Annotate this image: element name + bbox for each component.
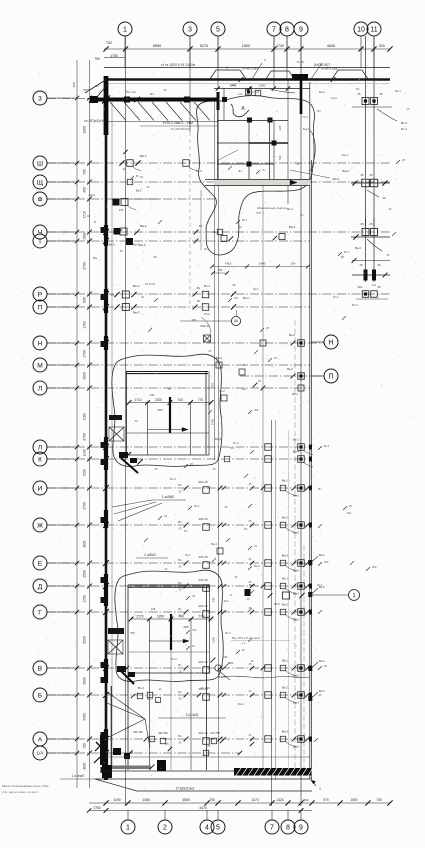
svg-text:Вк-2: Вк-2 <box>401 127 407 131</box>
axis circle 3 (left) <box>33 91 47 105</box>
cluster row 163 mid <box>183 160 190 167</box>
svg-text:2700: 2700 <box>83 262 87 270</box>
svg-text:П: П <box>328 374 333 381</box>
top edge thin line <box>104 67 390 69</box>
svg-text:Вч-2: Вч-2 <box>170 477 176 481</box>
axis 3 leader <box>47 97 77 99</box>
svg-text:25: 25 <box>179 588 182 592</box>
core1 h120 <box>217 120 288 122</box>
svg-text:И: И <box>38 485 43 492</box>
axis circle 1/А (left) <box>33 746 47 760</box>
svg-text:25: 25 <box>249 482 252 486</box>
svg-text:Вч-2: Вч-2 <box>194 504 200 508</box>
sq row 551 <box>217 548 223 554</box>
core2 brace diag 2 <box>109 427 124 441</box>
svg-text:Зч: Зч <box>238 169 242 173</box>
core2 left wall <box>126 371 128 455</box>
core3 left brace box <box>108 640 123 654</box>
axis circle В (left) <box>33 661 47 675</box>
svg-text:25: 25 <box>357 92 361 96</box>
svg-text:4: 4 <box>205 825 209 832</box>
svg-text:744: 744 <box>218 268 223 272</box>
svg-text:2700: 2700 <box>83 433 87 441</box>
leader to circle Н <box>311 341 324 343</box>
svg-text:Вм-2: Вм-2 <box>293 569 300 573</box>
svg-text:Л: Л <box>38 444 42 451</box>
svg-text:Т2: Т2 <box>134 419 138 423</box>
core1 top line <box>214 88 310 90</box>
svg-text:34: 34 <box>213 467 216 471</box>
band arrowhead <box>290 180 297 185</box>
core3 bottom dark cluster <box>117 666 126 672</box>
svg-text:800: 800 <box>83 297 87 303</box>
core3 thick diagonal <box>120 670 134 684</box>
svg-text:СМ 750: СМ 750 <box>210 731 220 735</box>
svg-text:2 шЗМ2: 2 шЗМ2 <box>144 553 156 557</box>
upper beam bar <box>104 78 390 81</box>
axis circle 9 (top) <box>294 22 308 36</box>
svg-text:Вк-1: Вк-1 <box>282 659 288 663</box>
svg-text:Вм-2: Вм-2 <box>293 745 300 749</box>
svg-text:Вч: Вч <box>319 487 323 491</box>
wall side marks <box>101 227 106 233</box>
axis П leader <box>47 306 77 308</box>
svg-text:3: 3 <box>38 95 42 102</box>
inner wall line x214 <box>214 99 216 460</box>
axis 11 stem <box>373 36 375 68</box>
axis Ж leader <box>47 524 77 526</box>
svg-text:25: 25 <box>96 84 99 88</box>
svg-text:1А+ВТЗ.2Ба: 1А+ВТЗ.2Ба <box>321 67 338 71</box>
svg-text:25: 25 <box>179 741 182 745</box>
skirt diagonal <box>95 779 137 791</box>
svg-text:3900: 3900 <box>83 677 87 685</box>
svg-text:25: 25 <box>249 519 252 523</box>
axis circle Н (left) <box>33 336 47 350</box>
svg-text:Вм-2: Вм-2 <box>254 564 260 568</box>
svg-text:1710: 1710 <box>83 211 87 219</box>
beam tick x333 <box>331 77 336 82</box>
axis А leader <box>47 738 77 740</box>
svg-text:Вк-1: Вк-1 <box>293 438 299 442</box>
core2 brace diag 1 <box>109 427 124 441</box>
axis row line y241 <box>47 240 310 242</box>
svg-text:3801: 3801 <box>83 540 87 548</box>
svg-text:1170: 1170 <box>251 798 258 802</box>
axis circle 8 (bottom) <box>281 820 295 834</box>
core3 right wall b <box>209 585 211 673</box>
svg-text:Вм-2: Вм-2 <box>293 494 300 498</box>
svg-text:Н: Н <box>328 340 333 347</box>
axis Л leader <box>47 446 77 448</box>
svg-text:Л: Л <box>38 385 42 392</box>
svg-text:Вк-1: Вк-1 <box>282 479 288 483</box>
svg-text:2: 2 <box>264 58 266 62</box>
core1 wall v269 <box>269 120 271 183</box>
axis row line y612 <box>47 611 310 613</box>
svg-text:Вм-1: Вм-1 <box>238 702 245 706</box>
svg-text:Зб: Зб <box>232 283 236 287</box>
svg-text:10: 10 <box>357 27 365 34</box>
core3 mullion line extension <box>170 650 172 770</box>
svg-text:25: 25 <box>209 349 212 353</box>
bottom hatched thick bar <box>234 768 311 776</box>
svg-text:Вк-3: Вк-3 <box>319 659 325 663</box>
fan base line <box>107 121 218 123</box>
axis row line y199 <box>47 198 215 200</box>
svg-text:Вк-1: Вк-1 <box>317 583 323 587</box>
svg-text:Вм-4: Вм-4 <box>343 169 350 173</box>
svg-text:Вч: Вч <box>197 286 201 290</box>
svg-text:25: 25 <box>274 356 277 360</box>
axis 9 stem <box>300 36 302 68</box>
core3 dim ticks <box>129 617 134 622</box>
svg-text:З: З <box>230 593 232 597</box>
misc squiggle leaders <box>217 150 238 161</box>
leader to beam 1 <box>252 63 262 79</box>
svg-text:1981: 1981 <box>83 232 87 240</box>
axis 3 stem <box>189 36 191 68</box>
corner tick 2 <box>89 97 95 103</box>
svg-text:740: 740 <box>278 155 282 160</box>
svg-text:Монолитный участок: Монолитный участок <box>257 206 287 210</box>
svg-text:30А: 30А <box>224 599 229 603</box>
svg-text:Вч-2: Вч-2 <box>171 657 177 661</box>
svg-text:25: 25 <box>179 614 182 618</box>
svg-text:Вк-1: Вк-1 <box>253 287 259 291</box>
svg-text:Вк-2: Вк-2 <box>352 303 358 307</box>
core3 v191 extended <box>190 619 192 770</box>
svg-text:Вм: Вм <box>93 256 97 260</box>
wall thick segment y574 <box>104 574 108 606</box>
wall inner face line <box>111 102 113 768</box>
svg-text:700: 700 <box>83 169 87 175</box>
svg-text:П: П <box>38 304 43 311</box>
svg-text:126: 126 <box>119 208 124 212</box>
svg-text:Вк-1: Вк-1 <box>185 553 191 557</box>
svg-text:Вк-2: Вк-2 <box>289 333 295 337</box>
main thick beam row 3 <box>92 98 219 102</box>
svg-text:Зб: Зб <box>224 505 228 509</box>
svg-text:150: 150 <box>223 655 228 659</box>
svg-text:34: 34 <box>389 207 392 211</box>
svg-text:Д: Д <box>242 105 245 110</box>
svg-text:Вч-2: Вч-2 <box>225 631 231 635</box>
svg-text:Вч-2: Вч-2 <box>333 295 339 299</box>
core1 h143 <box>217 142 288 144</box>
svg-text:С: С <box>99 90 101 94</box>
axis row line y586 <box>47 585 310 587</box>
svg-text:7415: 7415 <box>225 262 232 266</box>
svg-text:8: 8 <box>286 825 290 832</box>
grid line axis 9 <box>300 36 302 806</box>
axis circle 5 (top) <box>211 22 225 36</box>
svg-text:5: 5 <box>216 27 220 34</box>
svg-text:25: 25 <box>258 379 261 383</box>
svg-text:Вк-2: Вк-2 <box>282 686 288 690</box>
svg-text:ПО 4+0: ПО 4+0 <box>126 90 136 94</box>
axis circle Н (right) <box>324 335 338 349</box>
svg-text:4500: 4500 <box>182 798 190 802</box>
wall second line lower <box>110 686 112 776</box>
svg-text:30А 25: 30А 25 <box>198 555 208 559</box>
axis row line y668 <box>47 667 310 669</box>
row 343 details <box>260 340 266 346</box>
svg-text:Зб: Зб <box>386 253 390 257</box>
svg-text:7: 7 <box>270 825 274 832</box>
svg-text:Вм-3: Вм-3 <box>139 243 146 247</box>
svg-text:2500: 2500 <box>83 570 87 578</box>
svg-text:Вч: Вч <box>178 607 182 611</box>
core3 brace diag 1 <box>108 640 123 654</box>
core1 wall v274 <box>273 120 275 183</box>
core1 band bottom <box>205 185 310 187</box>
svg-text:25: 25 <box>369 173 373 177</box>
cluster row 163 left <box>127 160 134 167</box>
clusters rows 294/307 <box>122 291 129 298</box>
leader fan bottom left <box>107 692 145 719</box>
cluster row 232 left <box>114 228 121 235</box>
svg-text:2: 2 <box>163 825 167 832</box>
svg-text:4.2: 4.2 <box>372 283 377 287</box>
detail cluster row y459 <box>265 456 272 463</box>
bottom dim line 2 <box>89 810 312 812</box>
axis row line y376 <box>240 375 324 377</box>
svg-text:Щ: Щ <box>37 179 43 186</box>
svg-text:7А 7Б: 7А 7Б <box>296 60 304 64</box>
svg-text:1200: 1200 <box>157 614 164 618</box>
svg-text:25: 25 <box>360 222 364 226</box>
svg-text:25: 25 <box>167 387 171 391</box>
svg-text:340 4+5: 340 4+5 <box>249 90 260 94</box>
svg-text:Вм-2: Вм-2 <box>133 284 140 288</box>
wall thick segment y510 <box>104 510 108 528</box>
axis Е leader <box>47 562 77 564</box>
grid line axis 3 dashed <box>189 132 191 305</box>
svg-text:И: И <box>234 319 237 324</box>
svg-text:30А 25: 30А 25 <box>198 578 208 582</box>
detail cluster row y447 <box>265 444 272 451</box>
core right edge x288 <box>287 80 289 204</box>
svg-text:25: 25 <box>208 744 211 748</box>
grid line axis 3 upper <box>189 36 191 132</box>
axis 5 bottom stem <box>217 810 219 820</box>
svg-text:34: 34 <box>147 185 150 189</box>
svg-text:25: 25 <box>235 575 238 579</box>
scattered tiny annotation marks <box>130 176 134 180</box>
svg-text:Зч: Зч <box>192 644 196 648</box>
svg-text:25: 25 <box>179 670 182 674</box>
axis row line y739 <box>47 738 310 740</box>
svg-text:1440: 1440 <box>230 84 237 88</box>
svg-text:Зч: Зч <box>140 175 144 179</box>
svg-text:уЧп. далее смещ. по мест.: уЧп. далее смещ. по мест. <box>2 790 39 794</box>
svg-text:Е: Е <box>38 560 43 567</box>
svg-text:Вч: Вч <box>178 483 182 487</box>
axis circle 7 (top) <box>267 22 281 36</box>
axis row line y525 <box>47 524 310 526</box>
right column line a <box>365 36 367 282</box>
axis 9 bottom stem <box>300 810 302 820</box>
grid line axis 7 lower <box>271 420 273 806</box>
svg-text:Ум (30х90х90): Ум (30х90х90) <box>170 127 190 131</box>
axis circle Щ (left) <box>33 175 47 189</box>
svg-text:Ве-2: Ве-2 <box>319 90 325 94</box>
right cluster row 294 <box>362 291 369 298</box>
fan base line 2 <box>140 125 218 127</box>
svg-text:Вм-1: Вм-1 <box>333 177 340 181</box>
svg-text:1 шЗМ2: 1 шЗМ2 <box>162 495 174 499</box>
axis circle Л (left) <box>33 440 47 454</box>
dashed line x295 <box>294 320 296 770</box>
core2 left brace box <box>109 427 124 441</box>
axis 1 bottom stem <box>127 810 129 820</box>
slab fan hatch lines <box>110 102 126 121</box>
core2 h433 <box>126 432 209 434</box>
axis row line y388 <box>47 387 310 389</box>
axis circle 5 (bottom) <box>211 820 225 834</box>
arrow leader bottom right <box>311 780 316 786</box>
core2 dim line <box>129 402 211 404</box>
axis circle К (left) <box>33 452 47 466</box>
main left wall <box>105 76 108 779</box>
svg-text:30А 25: 30А 25 <box>198 480 208 484</box>
core2 cloud outline <box>112 354 222 466</box>
axis row line y182 <box>47 181 390 183</box>
svg-text:Вч: Вч <box>178 558 182 562</box>
svg-text:25: 25 <box>249 733 252 737</box>
svg-text:Вч: Вч <box>178 663 182 667</box>
axis Ч leader <box>47 231 77 233</box>
axis Л leader <box>47 387 77 389</box>
svg-text:Вч-2: Вч-2 <box>233 441 239 445</box>
leader curve top right <box>377 109 397 121</box>
svg-text:7200: 7200 <box>83 469 87 477</box>
axis circle Т (left) <box>33 234 47 248</box>
right columns row 275 <box>352 274 390 276</box>
core1 top ticks <box>216 86 220 90</box>
svg-text:30А: 30А <box>242 387 247 391</box>
svg-text:120: 120 <box>278 125 282 130</box>
svg-text:2Ф8: 2Ф8 <box>183 625 189 629</box>
grid line axis 7 twin <box>275 420 277 780</box>
svg-text:30А: 30А <box>347 511 352 515</box>
hook row163 left sq <box>132 166 141 171</box>
core3 thick mullion <box>170 614 172 650</box>
core2 thick diagonal <box>121 458 138 473</box>
svg-text:Зб: Зб <box>296 162 300 166</box>
svg-text:Вм-4: Вм-4 <box>289 225 296 229</box>
below-beam squares x248-258 <box>246 89 252 95</box>
wall thick segment y225 <box>104 225 108 246</box>
axis 8 bottom stem <box>287 810 289 820</box>
core1 h143 thick part <box>249 142 288 144</box>
svg-text:34: 34 <box>122 167 126 171</box>
core1 wall v249 <box>248 120 250 183</box>
svg-text:Вч: Вч <box>243 363 247 367</box>
left dim ticks <box>87 96 92 101</box>
axis 10 stem <box>360 36 362 68</box>
thick column x301 <box>300 77 303 114</box>
svg-text:Ч: Ч <box>38 229 42 236</box>
grid line axis 7 upper <box>273 36 275 88</box>
svg-text:Вм-3: Вм-3 <box>133 311 140 315</box>
svg-text:ЗЧ: ЗЧ <box>153 255 157 259</box>
svg-text:1500: 1500 <box>350 798 357 802</box>
svg-text:32: 32 <box>238 225 242 229</box>
detail circle И <box>231 316 240 325</box>
sub dim line <box>104 57 125 59</box>
axis circle Ш (left) <box>33 156 47 170</box>
axis circle 1 (bottom) <box>121 820 135 834</box>
svg-text:1782: 1782 <box>83 321 87 329</box>
svg-text:25: 25 <box>360 173 364 177</box>
grid line x263 <box>262 185 264 770</box>
axis Ф leader <box>47 198 77 200</box>
svg-text:В: В <box>38 665 43 672</box>
svg-text:34: 34 <box>119 249 123 253</box>
row 388 details <box>298 385 304 391</box>
svg-text:34: 34 <box>159 687 162 691</box>
svg-text:1: 1 <box>123 27 127 34</box>
svg-text:Вч: Вч <box>242 648 246 652</box>
svg-text:Зб: Зб <box>154 467 158 471</box>
svg-text:25: 25 <box>179 490 182 494</box>
svg-text:1700: 1700 <box>83 595 87 603</box>
svg-text:Вч: Вч <box>178 690 182 694</box>
svg-text:Б4: Б4 <box>150 92 154 96</box>
svg-text:Бм-2: Бм-2 <box>303 127 310 131</box>
core3 left dark box <box>108 628 124 634</box>
svg-text:т4 та 1ВЗЛ 8 1В 1ЗЛЗм: т4 та 1ВЗЛ 8 1В 1ЗЛЗм <box>161 63 195 67</box>
core3 top wall line <box>128 584 209 586</box>
svg-text:2 П(2х2)-№2: 2 П(2х2)-№2 <box>176 787 195 791</box>
axis circle 11 (top) <box>367 22 381 36</box>
svg-text:Вч: Вч <box>185 529 189 533</box>
svg-text:Вм-2: Вм-2 <box>293 531 300 535</box>
core2 thick mullion <box>169 397 171 433</box>
hook below beam <box>270 89 295 93</box>
svg-text:7: 7 <box>272 27 276 34</box>
svg-text:Вч: Вч <box>197 299 201 303</box>
core1 band top <box>205 179 310 181</box>
svg-text:8: 8 <box>285 27 289 34</box>
svg-text:Вк-2: Вк-2 <box>243 296 249 300</box>
svg-text:Вм-2: Вм-2 <box>293 701 300 705</box>
svg-text:- у 1: - у 1 <box>240 641 246 645</box>
axis Р leader <box>47 293 77 295</box>
svg-text:Вм-2: Вм-2 <box>292 392 299 396</box>
left dim line outer <box>76 60 78 788</box>
axis circle М (left) <box>33 358 47 372</box>
skirt bottom line <box>137 790 312 792</box>
axis row line y563 <box>47 562 310 564</box>
axis circle 10 (top) <box>354 22 368 36</box>
svg-text:34: 34 <box>165 567 168 571</box>
axis circle И (left) <box>33 481 47 495</box>
svg-text:755: 755 <box>130 631 135 635</box>
core2 arrowhead <box>182 428 188 432</box>
svg-text:Вк-1: Вк-1 <box>324 444 330 448</box>
svg-text:25: 25 <box>179 565 182 569</box>
svg-text:1190: 1190 <box>113 798 120 802</box>
core3 cloud outline <box>115 570 223 681</box>
axis row line y695 <box>47 694 310 696</box>
grid line axis 1 <box>125 36 127 806</box>
cluster row 595 <box>245 589 251 596</box>
axis circle 8 (top) <box>280 22 294 36</box>
svg-text:25: 25 <box>359 263 363 267</box>
